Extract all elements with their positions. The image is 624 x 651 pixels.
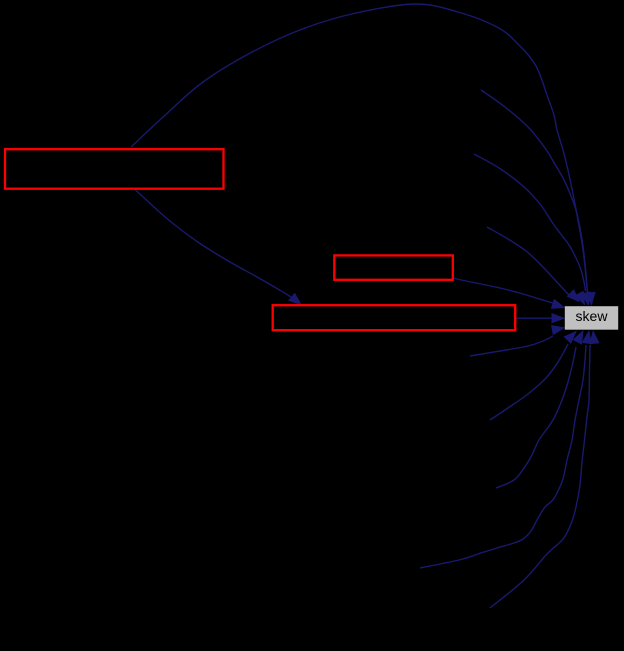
node skew (grey, current function) bbox=[565, 306, 618, 330]
edge node6 to skew bbox=[490, 344, 568, 420]
node box1 (red, caller) bbox=[5, 149, 224, 189]
arrowhead edge node1/box1 to skew (top arc) bbox=[585, 292, 595, 306]
edge node4 to skew bbox=[487, 227, 571, 297]
arrowhead edge node4 to skew bbox=[567, 289, 580, 302]
arrowhead edge node5 to skew bbox=[551, 325, 566, 335]
edge node2 to skew bbox=[481, 90, 588, 293]
arrowhead edge node8 to skew bbox=[582, 330, 592, 344]
edge box2 to skew bbox=[453, 278, 553, 303]
edge node8 to skew bbox=[420, 345, 586, 568]
edge box3 to skew bbox=[515, 317, 552, 319]
arrowhead edge node6 to skew bbox=[564, 331, 577, 344]
arrowhead edge node3 to skew bbox=[574, 291, 585, 306]
node box2 (red, caller) bbox=[334, 255, 453, 279]
arrowhead edge node2 to skew bbox=[581, 291, 591, 306]
arrowhead edge node9 to skew bbox=[589, 330, 599, 344]
edge node7 to skew bbox=[496, 347, 576, 488]
arrowhead edge node7 to skew bbox=[573, 330, 584, 345]
arrowhead edge box1 to box3 bbox=[288, 293, 302, 306]
edge box1 to box3 bbox=[135, 190, 291, 298]
edge node5 to skew bbox=[470, 336, 553, 356]
edge node3 to skew bbox=[474, 154, 586, 291]
svg-text:skew: skew bbox=[576, 308, 609, 324]
arrowhead edge box3 to skew bbox=[552, 313, 566, 323]
edge node9 to skew bbox=[490, 345, 590, 608]
edge node1/box1 to skew (top arc) bbox=[131, 4, 588, 292]
arrowhead edge box2 to skew bbox=[551, 299, 566, 309]
node box3 (red, caller) bbox=[273, 305, 516, 330]
